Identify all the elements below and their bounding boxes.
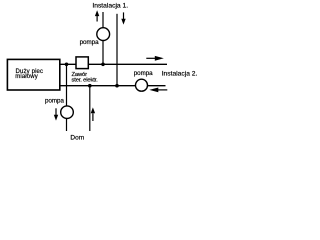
- wire supply pipe (top, boiler to Instalacja 2): [59, 63, 167, 65]
- flow arrow down (Dom supply): [54, 108, 58, 120]
- flow arrow right (Instalacja 2 supply): [146, 56, 164, 61]
- svg-text:miałowy: miałowy: [15, 74, 38, 80]
- svg-text:Dom: Dom: [70, 135, 84, 142]
- svg-text:pompa: pompa: [134, 70, 153, 77]
- svg-text:ster. elektr.: ster. elektr.: [72, 78, 99, 84]
- node junction dot top pipe / Instalacja 1 riser: [101, 63, 105, 67]
- svg-text:Instalacja 2.: Instalacja 2.: [162, 71, 198, 78]
- valve (Zawór ster. elektr.): [76, 57, 88, 69]
- pump P1 (Instalacja 1): [97, 28, 110, 41]
- svg-text:Instalacja 1.: Instalacja 1.: [92, 2, 128, 9]
- flow arrow down (Instalacja 1 return): [121, 12, 125, 24]
- pump P2 (Instalacja 2): [136, 79, 148, 91]
- wire riser Dom return: [89, 86, 91, 131]
- svg-text:pompa: pompa: [45, 98, 64, 105]
- wire return pipe (bottom, boiler to Instalacja 2): [59, 85, 166, 87]
- flow arrow up (Dom return): [91, 107, 95, 121]
- flow arrow left (Instalacja 2 return): [149, 88, 167, 93]
- svg-text:pompa: pompa: [80, 39, 99, 46]
- node junction dot bottom pipe / Dom return riser: [88, 84, 92, 88]
- pump P3 (Dom): [61, 106, 74, 119]
- node junction dot top pipe / Dom riser: [65, 63, 69, 67]
- wire riser Instalacja 1 return: [116, 14, 118, 86]
- wire riser Instalacja 1 supply: [102, 12, 104, 64]
- node junction dot bottom pipe / Instalacja 1 return riser: [115, 84, 119, 88]
- flow arrow up (Instalacja 1 supply): [95, 10, 99, 21]
- boiler "Duży piec miałowy": [7, 59, 59, 90]
- wire riser Dom supply: [66, 64, 68, 131]
